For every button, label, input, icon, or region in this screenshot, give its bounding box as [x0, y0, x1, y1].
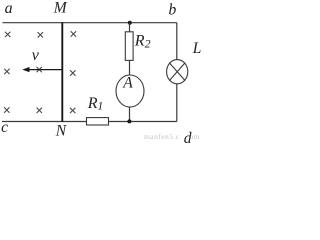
- wire: bottom rail c-d: [2, 121, 177, 123]
- svg-text:manfen5.c: manfen5.c: [144, 132, 180, 141]
- field symbol x row2 col3: [70, 70, 75, 75]
- resistor R2: [125, 32, 133, 61]
- resistor R1: [87, 118, 109, 125]
- field symbol x row2 col1: [4, 69, 9, 74]
- svg-text:R1: R1: [87, 95, 104, 113]
- svg-text:L: L: [192, 40, 201, 57]
- field symbol x row3 col2: [37, 108, 42, 113]
- node: bottom junction dot: [127, 119, 131, 123]
- node: top junction dot: [128, 21, 132, 25]
- field symbol x row3 col1: [4, 107, 9, 112]
- wire: top rail a-b: [3, 22, 177, 24]
- svg-text:b: b: [169, 1, 177, 18]
- svg-text:v: v: [32, 47, 40, 64]
- field symbol x row1 col3: [71, 31, 76, 36]
- wire: R2 branch top stub: [129, 23, 131, 32]
- rod MN: [61, 22, 63, 122]
- svg-text:a: a: [5, 0, 13, 17]
- wire: R2 to ammeter: [129, 60, 131, 75]
- field symbol x row1 col2: [38, 32, 43, 37]
- svg-text:A: A: [122, 75, 133, 92]
- wire: ammeter bottom stub: [129, 107, 131, 121]
- svg-text:c: c: [1, 119, 8, 136]
- velocity arrow: [22, 67, 62, 72]
- svg-text:d: d: [184, 130, 192, 145]
- field symbol x row3 col3: [70, 108, 75, 113]
- field symbol x row1 col1: [5, 32, 10, 37]
- lamp L: [167, 60, 188, 84]
- svg-text:M: M: [53, 0, 68, 17]
- field symbol x row2 col2 (on arrow): [37, 67, 42, 72]
- op: ammeter A: [116, 75, 144, 107]
- svg-text:R2: R2: [134, 33, 151, 51]
- wire: right side b-d: [176, 23, 178, 122]
- svg-text:N: N: [55, 123, 68, 140]
